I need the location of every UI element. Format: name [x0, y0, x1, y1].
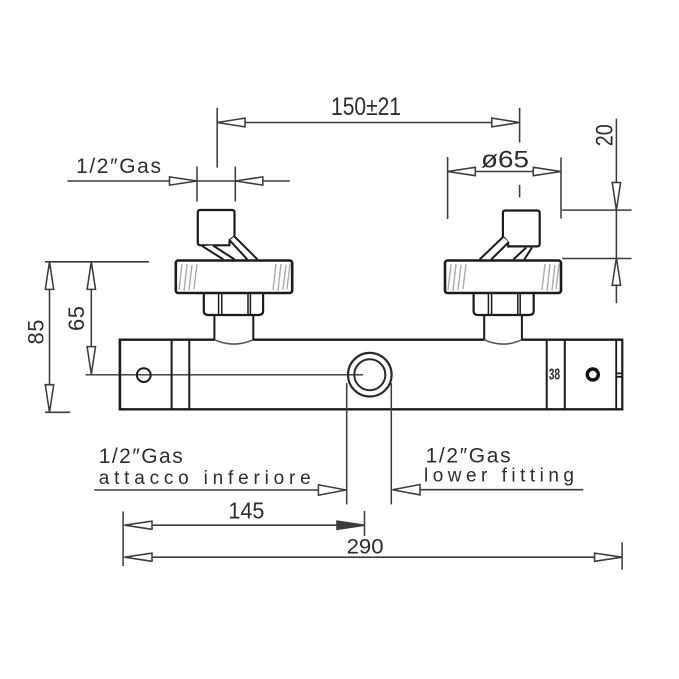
- left ring hatch right: [273, 264, 290, 291]
- right trim notch: [616, 372, 622, 374]
- fitting ext line right: [390, 383, 392, 504]
- top ref line: [45, 261, 149, 263]
- tick right 290: [621, 542, 623, 570]
- tick right 145: [364, 511, 366, 536]
- right ring hatch right: [542, 264, 559, 291]
- right nut: [474, 293, 534, 315]
- left ring: [176, 261, 292, 294]
- svg-text:290: 290: [347, 536, 384, 559]
- ext dash right 150: [519, 185, 521, 197]
- dim line 85: [49, 262, 51, 413]
- right arm band A: [480, 237, 509, 259]
- ref line bottom 20: [562, 258, 631, 260]
- arrow right 290: [595, 553, 623, 561]
- ext line right 150: [519, 108, 521, 143]
- fitting outer circle: [348, 353, 392, 397]
- svg-text:65: 65: [64, 306, 89, 331]
- divider x=564.8: [564, 340, 566, 410]
- arrow right 150: [492, 118, 520, 127]
- left top square: [198, 210, 235, 245]
- left nut: [204, 293, 263, 315]
- arrow right 145 (filled): [337, 521, 365, 529]
- bar top edge with stem fillets: [120, 339, 622, 341]
- arrow to right tip at left tick: [170, 177, 198, 185]
- arrow left 145: [125, 521, 153, 529]
- svg-text:1/2″Gas: 1/2″Gas: [76, 155, 161, 178]
- ext line right 65: [560, 158, 562, 219]
- bar right edge: [621, 339, 623, 411]
- tick left 145/290: [122, 512, 124, 567]
- svg-text:1/2″Gas: 1/2″Gas: [99, 445, 183, 468]
- small circle on left cap: [137, 368, 151, 382]
- divider x=171.6: [171, 340, 173, 410]
- bottom ref line 85: [45, 411, 70, 413]
- fitting ext line left: [346, 383, 348, 504]
- left arm band B: [202, 245, 234, 259]
- dim line 65: [448, 171, 561, 173]
- right ring: [445, 261, 561, 294]
- arrow left 290: [125, 553, 153, 561]
- stem fillet arc right: [484, 340, 522, 344]
- divider x=546.7: [546, 340, 548, 410]
- svg-text:ø65: ø65: [481, 146, 529, 173]
- arrow up 20: [612, 258, 620, 286]
- center line: [86, 374, 364, 376]
- left nut facets: [218, 293, 220, 315]
- fitting inner circle: [354, 359, 385, 390]
- leader line left: [94, 489, 346, 491]
- left ring hatch left: [179, 264, 197, 291]
- arrow up 65 left: [87, 262, 95, 290]
- leader line right: [393, 489, 584, 491]
- svg-text:150±21: 150±21: [331, 93, 401, 121]
- right top square: [503, 211, 540, 247]
- svg-text:145: 145: [228, 498, 264, 524]
- svg-text:38: 38: [549, 365, 560, 383]
- bar bottom edge: [120, 408, 622, 410]
- svg-text:85: 85: [24, 320, 49, 345]
- arrow down 65 left: [87, 347, 95, 375]
- svg-text:20: 20: [592, 124, 619, 146]
- leader arrow left (points right): [318, 485, 346, 495]
- dim line gas top: [67, 180, 289, 182]
- bar left edge: [119, 339, 122, 411]
- ext line left 150: [216, 108, 218, 168]
- tick left gas top: [196, 167, 198, 202]
- right ring hatch left: [448, 264, 466, 291]
- left stem: [213, 315, 215, 340]
- marking O: [587, 369, 598, 380]
- dim line 65 left: [90, 262, 92, 374]
- divider x=616.2: [615, 340, 617, 410]
- tick right gas top: [234, 167, 236, 202]
- right arm band B: [513, 248, 532, 260]
- arrow up 85: [45, 262, 53, 290]
- left arm band A: [230, 237, 258, 260]
- arrow left 150: [217, 118, 245, 127]
- ref line top 20: [562, 209, 631, 211]
- right nut facets: [487, 293, 489, 315]
- stem fillet arc left: [214, 340, 253, 344]
- arrow down 20: [612, 183, 620, 211]
- leader arrow right (points left): [393, 485, 421, 495]
- divider x=189.3: [188, 340, 190, 410]
- arrow to left tip at right tick: [235, 177, 262, 185]
- ext line left 65: [447, 157, 449, 219]
- arrow down 85: [45, 385, 53, 413]
- dim line 290: [125, 556, 623, 558]
- dim line 150: [217, 122, 519, 124]
- arrow right 65: [533, 167, 561, 175]
- svg-text:1/2″Gas: 1/2″Gas: [426, 445, 511, 468]
- right stem: [483, 315, 485, 340]
- dim line 20 vertical: [615, 119, 617, 304]
- arrow left 65: [448, 167, 476, 175]
- dim line 145: [125, 524, 365, 526]
